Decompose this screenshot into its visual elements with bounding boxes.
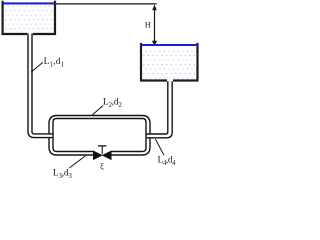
leader line for L3,d3 bbox=[70, 156, 86, 168]
pipe L1 (vertical from tank T1, elbow to loop) bbox=[28, 34, 53, 138]
svg-text:ξ: ξ bbox=[100, 162, 104, 171]
reference line from T1 surface bbox=[56, 3, 157, 5]
svg-text:H: H bbox=[145, 21, 151, 30]
dimension arrow H bbox=[152, 5, 157, 46]
leader line for L2,d2 bbox=[92, 106, 103, 115]
leader line for L4,d4 bbox=[155, 139, 164, 155]
tank T2 (lower right reservoir) bbox=[140, 43, 199, 81]
water level line tank T1 bbox=[3, 2, 56, 4]
pipe L4 (from loop right side, elbow up to tank T2) bbox=[146, 81, 172, 138]
loop outer wall (upper half, branch L2) bbox=[49, 116, 150, 135]
loop outer wall (lower half, branch L3) bbox=[49, 138, 150, 155]
tank T1 (upper left reservoir) bbox=[2, 1, 57, 34]
valve (bowtie) with stem, coefficient xi bbox=[93, 146, 111, 160]
leader line for L1,d1 bbox=[31, 62, 43, 72]
loop inner wall (continuous ring, broken only at valve) bbox=[53, 119, 146, 152]
water level line tank T2 bbox=[140, 44, 199, 46]
